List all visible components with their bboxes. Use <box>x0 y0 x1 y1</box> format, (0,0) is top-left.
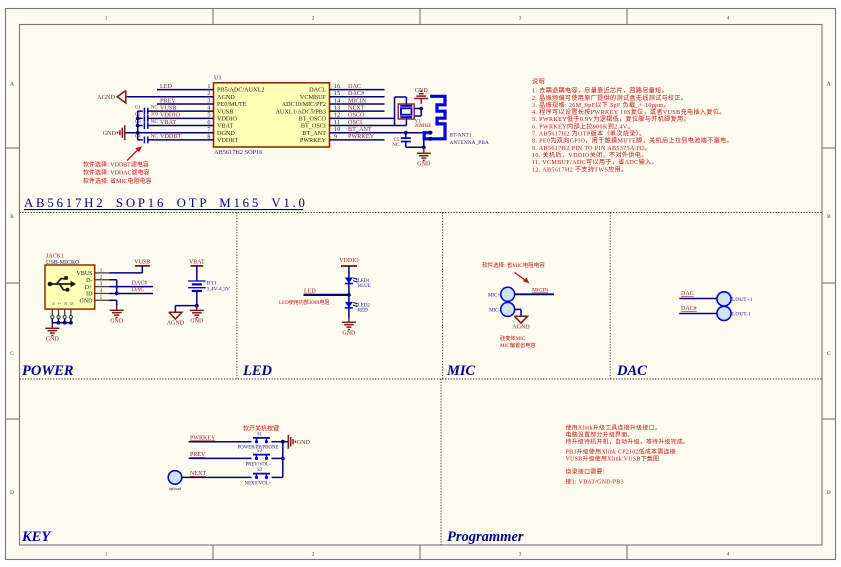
svg-text:使用Xlink升级工具连接升级接口。: 使用Xlink升级工具连接升级接口。 <box>566 424 661 432</box>
svg-text:GND: GND <box>110 318 124 324</box>
svg-text:4. 程序可以设置长按PWRKEY 10S复位，或者VUSB: 4. 程序可以设置长按PWRKEY 10S复位，或者VUSB充电插入复位。 <box>532 108 726 116</box>
svg-text:DAC#: DAC# <box>681 306 697 312</box>
svg-text:GND: GND <box>415 88 429 94</box>
svg-text:upload: upload <box>169 486 182 491</box>
svg-text:AGND: AGND <box>217 94 235 101</box>
svg-text:MIC+: MIC+ <box>488 293 500 298</box>
svg-text:1: 1 <box>105 551 108 557</box>
svg-text:AGND: AGND <box>512 325 530 331</box>
svg-text:PREV: PREV <box>190 452 206 458</box>
svg-text:VDDBT: VDDBT <box>217 137 239 144</box>
svg-text:AGND: AGND <box>167 321 185 327</box>
svg-text:POWER: POWER <box>22 363 74 379</box>
svg-text:DAC: DAC <box>681 291 694 297</box>
svg-text:VDDIO: VDDIO <box>339 258 359 264</box>
svg-text:MIC偏置省电容: MIC偏置省电容 <box>500 341 536 349</box>
svg-text:烧录接口需要:: 烧录接口需要: <box>566 467 605 475</box>
svg-text:硅麦体MIC: 硅麦体MIC <box>500 334 526 342</box>
svg-text:DAC: DAC <box>348 83 361 90</box>
svg-text:4: 4 <box>727 15 730 21</box>
svg-text:PE0/MUTE: PE0/MUTE <box>217 101 247 108</box>
svg-text:NC: NC <box>151 134 159 139</box>
svg-text:VBUS: VBUS <box>76 271 92 277</box>
svg-text:GND: GND <box>80 299 94 305</box>
svg-text:软件选择: VDDBT滤电容: 软件选择: VDDBT滤电容 <box>83 160 149 168</box>
svg-text:AUXL1/ADC5/PB3: AUXL1/ADC5/PB3 <box>275 108 326 115</box>
svg-text:2: 2 <box>312 15 315 21</box>
svg-text:Programmer: Programmer <box>447 529 524 545</box>
svg-text:VUSB: VUSB <box>160 104 177 111</box>
svg-text:12. AB5617H2 不支持TWS应用。: 12. AB5617H2 不支持TWS应用。 <box>532 165 628 173</box>
svg-text:D-: D- <box>86 278 92 284</box>
svg-text:VDDIO: VDDIO <box>217 115 237 122</box>
svg-text:2: 2 <box>312 551 315 557</box>
svg-text:软件选择: 省MIC电阻电容: 软件选择: 省MIC电阻电容 <box>83 177 152 185</box>
svg-text:NEXT: NEXT <box>348 104 365 111</box>
svg-text:GND: GND <box>417 161 431 167</box>
svg-text:1: 1 <box>105 15 108 21</box>
svg-text:VUSB升级使用Xlink VUSB下载图: VUSB升级使用Xlink VUSB下载图 <box>566 455 660 463</box>
svg-text:DAC: DAC <box>616 363 647 379</box>
svg-text:GND: GND <box>342 330 356 336</box>
svg-text:VDDIO: VDDIO <box>160 112 180 119</box>
svg-text:PREV/VOL-: PREV/VOL- <box>245 462 270 467</box>
svg-text:RED: RED <box>358 308 368 313</box>
svg-text:S1: S1 <box>257 433 263 438</box>
svg-text:LOUT+1: LOUT+1 <box>732 297 753 303</box>
svg-text:AB5617H2 SOP16 OTP M165 V1.0: AB5617H2 SOP16 OTP M165 V1.0 <box>24 196 308 210</box>
svg-text:PB3升级使用Xlink CP2102低成本需连接: PB3升级使用Xlink CP2102低成本需连接 <box>566 448 676 456</box>
svg-text:B: B <box>827 214 831 220</box>
svg-text:7. AB5617H2 为OTP版本（单次烧录）。: 7. AB5617H2 为OTP版本（单次烧录）。 <box>532 130 646 138</box>
svg-text:VBAT: VBAT <box>189 259 205 265</box>
svg-text:GND: GND <box>297 440 311 446</box>
svg-text:B: B <box>10 214 14 220</box>
svg-text:VCMBUF: VCMBUF <box>300 94 327 101</box>
svg-text:GND: GND <box>190 318 204 324</box>
svg-text:DAC#: DAC# <box>132 280 148 286</box>
svg-text:DACL: DACL <box>309 87 326 94</box>
svg-text:待升级待机开机，自动升级，等待升级完成。: 待升级待机开机，自动升级，等待升级完成。 <box>566 438 690 446</box>
svg-text:LED: LED <box>242 363 273 379</box>
svg-text:MIC: MIC <box>446 363 476 379</box>
svg-text:AB5617H2 SOP16: AB5617H2 SOP16 <box>214 149 262 156</box>
svg-text:NEXT: NEXT <box>190 471 206 477</box>
svg-text:A: A <box>10 82 14 88</box>
svg-text:VUSB: VUSB <box>134 260 150 266</box>
svg-text:接1: VBAT/GND/PB3: 接1: VBAT/GND/PB3 <box>566 478 624 486</box>
svg-text:6. PWRKEY内部上拉900K到2.4V。: 6. PWRKEY内部上拉900K到2.4V。 <box>532 122 634 130</box>
svg-text:D: D <box>10 490 14 496</box>
svg-text:LED: LED <box>160 83 173 90</box>
svg-text:MICIN: MICIN <box>348 97 367 104</box>
svg-text:26MHZ: 26MHZ <box>415 123 432 129</box>
svg-text:PWRKEY: PWRKEY <box>300 137 327 144</box>
svg-text:4: 4 <box>727 551 730 557</box>
svg-text:AGND: AGND <box>97 94 115 101</box>
svg-text:A: A <box>827 82 831 88</box>
svg-text:软开关机按键: 软开关机按键 <box>243 425 279 433</box>
svg-text:BLUE: BLUE <box>358 284 371 289</box>
svg-text:ADC10/MIC/PF2: ADC10/MIC/PF2 <box>282 101 326 108</box>
svg-text:MICIN: MICIN <box>532 288 548 294</box>
svg-text:PB5/ADC/AUXL2: PB5/ADC/AUXL2 <box>217 87 264 94</box>
svg-text:2. 晶振频偏可使用原厂提供的测试盒无线测试与校正。: 2. 晶振频偏可使用原厂提供的测试盒无线测试与校正。 <box>532 94 687 102</box>
svg-text:BT_OSCO: BT_OSCO <box>298 115 326 122</box>
svg-text:软件选择: VDDAC滤电容: 软件选择: VDDAC滤电容 <box>83 169 150 177</box>
svg-text:BT-ANT1: BT-ANT1 <box>450 133 472 139</box>
svg-text:GND: GND <box>46 336 60 342</box>
svg-text:PWRKEY: PWRKEY <box>190 436 216 442</box>
svg-text:BT_OSCI: BT_OSCI <box>301 123 326 130</box>
svg-text:103: 103 <box>151 113 159 118</box>
svg-text:9. AB5617H2 PIN TO PIN AB5375A: 9. AB5617H2 PIN TO PIN AB5375A/H2。 <box>532 146 651 152</box>
svg-text:OSCO: OSCO <box>348 112 365 119</box>
svg-text:DAC#: DAC# <box>348 90 364 97</box>
svg-text:VBAT: VBAT <box>160 119 176 126</box>
svg-text:DAC: DAC <box>132 287 145 293</box>
svg-text:S2: S2 <box>257 449 263 454</box>
svg-text:S3: S3 <box>257 468 263 473</box>
svg-text:BT_ANT: BT_ANT <box>302 130 326 137</box>
svg-text:D+: D+ <box>85 285 93 291</box>
svg-text:U1: U1 <box>214 75 222 82</box>
svg-text:ID: ID <box>86 292 93 298</box>
svg-text:电脑设置部分升级界面。: 电脑设置部分升级界面。 <box>566 431 634 439</box>
svg-text:LOUT-1: LOUT-1 <box>732 312 751 318</box>
svg-text:C: C <box>827 351 831 357</box>
svg-text:NC: NC <box>151 106 159 111</box>
svg-text:GND: GND <box>103 130 117 137</box>
svg-text:VDDBT: VDDBT <box>160 133 182 140</box>
svg-text:LED: LED <box>304 289 316 295</box>
svg-text:MIC-: MIC- <box>489 309 500 314</box>
svg-text:KEY: KEY <box>21 529 51 545</box>
svg-text:8. PE0为双向GPIO，用于触摸MUTE脚，关机后上拉到: 8. PE0为双向GPIO，用于触摸MUTE脚，关机后上拉到电池端不漏电。 <box>532 137 733 145</box>
svg-text:3: 3 <box>519 551 522 557</box>
svg-text:说明: 说明 <box>532 78 545 86</box>
svg-text:VUSB: VUSB <box>217 108 234 115</box>
svg-text:3.4V-4.3V: 3.4V-4.3V <box>207 287 230 293</box>
svg-text:USB-MICRO: USB-MICRO <box>46 260 80 266</box>
svg-text:3: 3 <box>519 15 522 21</box>
svg-text:DGND: DGND <box>217 130 235 137</box>
svg-text:NC: NC <box>392 142 400 148</box>
svg-text:5. PWRKEY低于0.9V为逻辑低，复位脚与开机脚复用。: 5. PWRKEY低于0.9V为逻辑低，复位脚与开机脚复用。 <box>532 115 690 123</box>
svg-text:NEXT/VOL+: NEXT/VOL+ <box>245 481 272 486</box>
svg-text:PWRKEY: PWRKEY <box>348 133 375 140</box>
svg-text:NC: NC <box>151 120 159 125</box>
svg-text:LED使用内部300R电阻: LED使用内部300R电阻 <box>279 299 330 306</box>
svg-text:3. 晶振规格: 26M_9pF以下.5pF 负载_+-10: 3. 晶振规格: 26M_9pF以下.5pF 负载_+-10ppm。 <box>532 101 670 109</box>
svg-text:1. 去耦退耦电容，尽量靠近芯片，回路尽量短。: 1. 去耦退耦电容，尽量靠近芯片，回路尽量短。 <box>532 87 668 95</box>
svg-text:JACK1: JACK1 <box>46 254 64 260</box>
svg-text:C1: C1 <box>135 106 141 111</box>
svg-text:10. 关机后，VDDIO关闭，不对外供电。: 10. 关机后，VDDIO关闭，不对外供电。 <box>532 151 648 159</box>
svg-text:VBAT: VBAT <box>217 123 233 130</box>
svg-text:ANTENNA_PBA: ANTENNA_PBA <box>450 140 489 146</box>
svg-text:软件选择: 省MIC电阻电容: 软件选择: 省MIC电阻电容 <box>482 261 545 269</box>
svg-text:PREV: PREV <box>160 97 176 104</box>
svg-text:D: D <box>827 490 831 496</box>
svg-text:C: C <box>10 351 14 357</box>
svg-text:11. VCMBUF/ADC可以用于，省ADC输入。: 11. VCMBUF/ADC可以用于，省ADC输入。 <box>532 158 658 166</box>
